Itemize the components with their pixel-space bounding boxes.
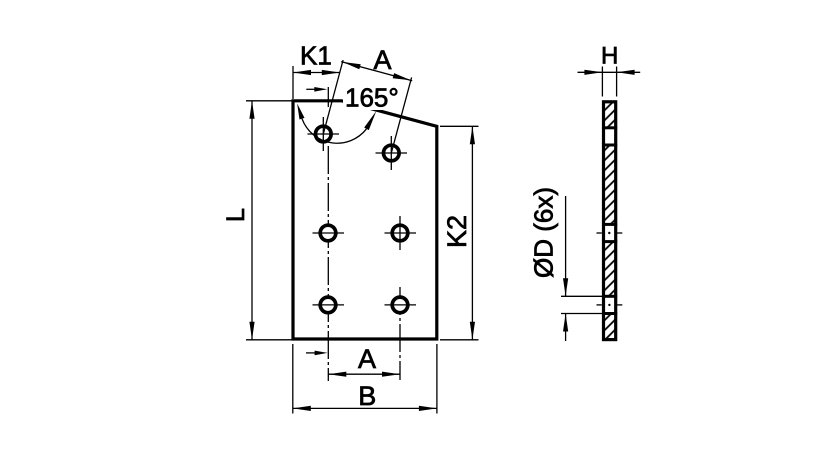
- hole section gap 1 edges: [602, 126, 617, 129]
- svg-text:K1: K1: [300, 41, 332, 71]
- plate outline front view: [293, 101, 437, 339]
- svg-text:ØD (6x): ØD (6x): [528, 187, 558, 278]
- svg-text:K2: K2: [442, 215, 472, 248]
- dimension OD extension lines: [561, 295, 603, 297]
- dimension A top extension line E2: [391, 77, 411, 153]
- centerline cross H1R: [390, 136, 392, 170]
- small reference arrow top: [306, 88, 320, 90]
- arc arrowhead right: [364, 111, 376, 130]
- centerline cross H1L: [322, 117, 324, 151]
- hole H1R: [384, 145, 400, 161]
- hatching section 4: [603, 314, 615, 340]
- dimension K1 extension line left: [292, 66, 294, 99]
- svg-text:L: L: [222, 208, 250, 222]
- dimension K2 extension lines: [440, 125, 479, 127]
- hole H3R: [392, 297, 408, 313]
- dimension A bottom line: [328, 373, 400, 375]
- centerline cross H2R: [399, 216, 401, 250]
- angle arc 165: [302, 119, 367, 144]
- gap 2 center ticks and dot: [597, 232, 602, 234]
- svg-text:H: H: [601, 43, 618, 70]
- hatching section 2: [603, 145, 615, 224]
- dimension B line: [293, 407, 437, 409]
- dimension L line: [251, 101, 253, 340]
- side view plate body: [604, 102, 616, 340]
- dimension H extension lines: [601, 67, 603, 97]
- centerline cross H3R: [385, 304, 417, 306]
- hole section gap 3 edges: [602, 295, 617, 298]
- centerline right column bottom extension: [399, 287, 401, 380]
- svg-text:A: A: [373, 45, 391, 75]
- dimension L extension lines: [246, 100, 292, 102]
- dimension OD arrow line upper: [565, 196, 567, 296]
- svg-text:A: A: [358, 344, 376, 374]
- centerline cross H2L: [313, 232, 345, 234]
- hole H3L: [320, 297, 336, 313]
- hole section gap 2 edges: [602, 223, 617, 226]
- dimension OD arrow line lower: [565, 314, 567, 342]
- hole H2L: [320, 225, 336, 241]
- dimension B extension lines: [292, 344, 294, 414]
- arc arrowhead left: [297, 103, 304, 119]
- svg-text:165°: 165°: [345, 83, 399, 113]
- dimension H line: [578, 71, 641, 73]
- gap 3 center ticks and dot: [597, 304, 602, 306]
- hole H1L: [316, 126, 332, 142]
- dimension K2 line: [471, 126, 473, 339]
- hole H2R: [392, 225, 408, 241]
- dimension A top line: [341, 62, 412, 81]
- small reference arrow bottom: [306, 352, 320, 354]
- centerline cross H3L: [313, 304, 345, 306]
- dimension A top extension line E1: [323, 60, 343, 134]
- hatching section 1: [603, 102, 615, 128]
- centerline left hole column: [327, 87, 329, 107]
- svg-text:B: B: [358, 381, 376, 411]
- label 165 deg with halo: [343, 87, 401, 110]
- dimension K1 line: [293, 72, 340, 74]
- hatching section 3: [603, 242, 615, 297]
